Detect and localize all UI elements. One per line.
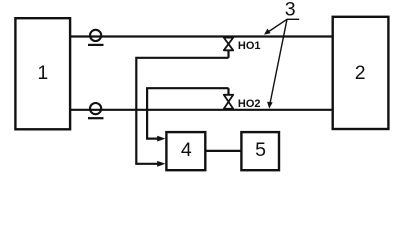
connector wire box4-box5 — [205, 150, 241, 152]
arrowhead at bottom pipe — [267, 102, 273, 109]
svg-text:3: 3 — [285, 0, 296, 20]
arrowhead at top pipe — [264, 29, 271, 35]
svg-text:2: 2 — [355, 62, 366, 84]
valve HO1 stem — [227, 50, 229, 58]
top pipe line — [70, 35, 333, 37]
svg-text:НО1: НО1 — [238, 40, 261, 52]
callout underline bar — [287, 18, 299, 20]
leader wire to bottom pipe near HO2 — [270, 19, 287, 104]
bottom pipe line — [70, 109, 333, 111]
valve HO2 stem — [227, 88, 229, 95]
valve HO2 (hourglass above bottom pipe) — [224, 95, 233, 109]
pump symbol on bottom pipe (circle with base bar) — [88, 103, 104, 118]
signal wire from HO1 to box 4 — [136, 58, 228, 164]
box 2 (apparatus 2) — [333, 17, 389, 129]
svg-text:1: 1 — [37, 62, 48, 84]
pump symbol on top pipe (circle with base bar) — [88, 30, 104, 45]
svg-text:4: 4 — [181, 139, 192, 161]
box 5 — [241, 132, 279, 170]
signal wire from HO2 to box 4 — [147, 88, 228, 138]
svg-text:5: 5 — [255, 139, 266, 161]
box 4 (controller) — [166, 132, 205, 170]
svg-text:НО2: НО2 — [238, 98, 261, 110]
arrowhead into box 4 upper — [157, 136, 165, 142]
valve HO1 (hourglass below top pipe) — [224, 38, 233, 51]
box 1 (apparatus 1) — [15, 18, 70, 129]
leader wire to top pipe — [267, 19, 288, 33]
arrowhead into box 4 lower — [157, 161, 165, 167]
